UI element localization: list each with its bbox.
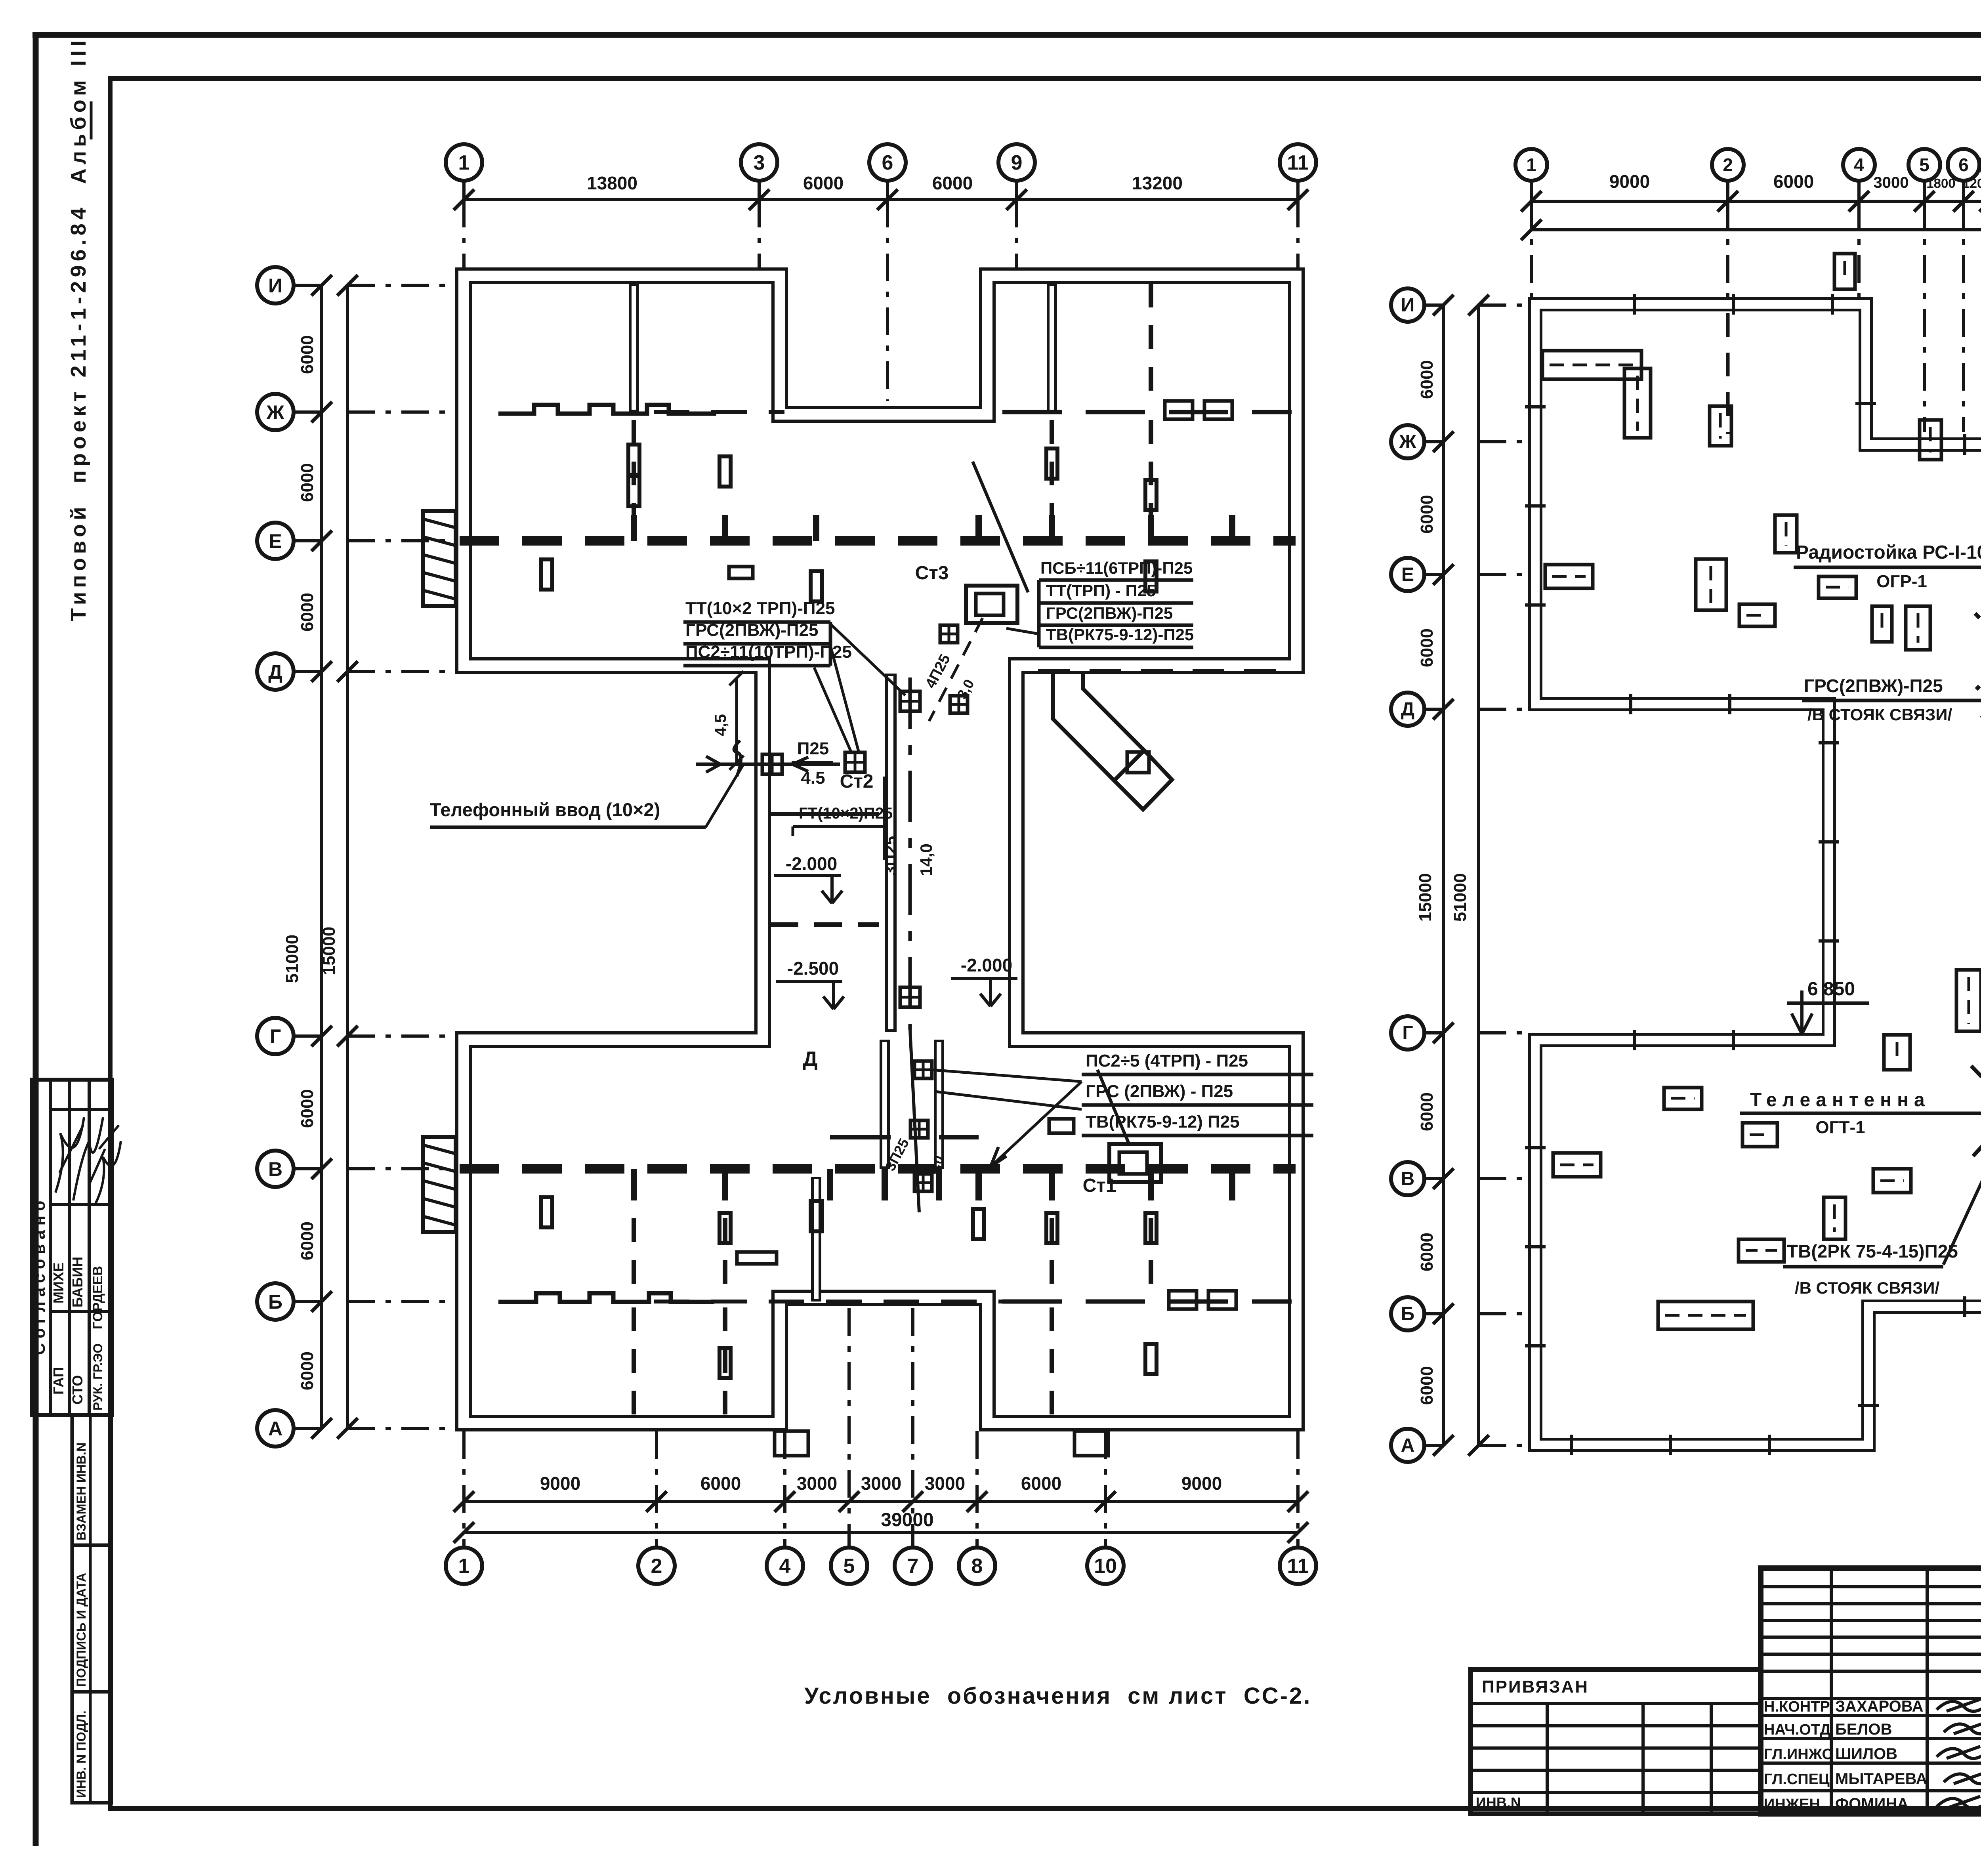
svg-text:/В СТОЯК СВЯЗИ/: /В СТОЯК СВЯЗИ/: [1807, 705, 1952, 724]
left plan row axis circle В: [257, 1151, 294, 1187]
title block signature rows grid: [1761, 1714, 1981, 1717]
left plan column marks upper block: [628, 445, 639, 475]
left plan bottom axis circle 10: [1087, 1548, 1124, 1584]
diagonal feeders near Ст3: [929, 618, 983, 721]
riser square near row Г: [914, 1061, 932, 1078]
svg-text:ПСБ÷11(6ТРП)-П25: ПСБ÷11(6ТРП)-П25: [1040, 559, 1193, 577]
svg-text:13800: 13800: [587, 173, 637, 193]
svg-text:ТТ(ТРП) - П25: ТТ(ТРП) - П25: [1046, 581, 1156, 600]
svg-text:ИНЖЕН.: ИНЖЕН.: [1764, 1796, 1824, 1813]
svg-text:3000: 3000: [861, 1473, 901, 1494]
vent box row В middle: [1873, 1169, 1911, 1193]
svg-text:6000: 6000: [932, 173, 973, 193]
right plan row axis circle Е: [1391, 558, 1424, 591]
svg-text:ЗАХАРОВА: ЗАХАРОВА: [1835, 1698, 1924, 1715]
vent shaft below row Е: [1906, 606, 1930, 650]
left plan bottom axis circle 4: [767, 1548, 803, 1584]
svg-text:11: 11: [1287, 151, 1309, 174]
svg-text:Радиостойка РС-I-1000: Радиостойка РС-I-1000: [1796, 542, 1981, 563]
vent shaft row Г middle: [1884, 1035, 1910, 1070]
riser squares along corridor chain: [900, 691, 920, 711]
svg-text:Телефонный ввод (10×2): Телефонный ввод (10×2): [430, 799, 660, 820]
vent box below row Е left: [1739, 604, 1775, 626]
right stack leader line to Ст3 box: [1006, 628, 1039, 634]
svg-text:Телеантенна: Телеантенна: [1750, 1090, 1930, 1111]
arrow head on lower leader: [990, 1147, 998, 1167]
left plan small square room mark: [729, 567, 753, 578]
svg-text:6000: 6000: [298, 593, 317, 632]
svg-text:9000: 9000: [540, 1473, 580, 1494]
svg-text:ПС2÷5 (4ТРП) - П25: ПС2÷5 (4ТРП) - П25: [1086, 1051, 1248, 1071]
vent shaft corridor: [1956, 970, 1981, 1031]
left plan entry porches on south wall: [775, 1431, 808, 1456]
right plan top dimension line: [1531, 200, 1981, 203]
vent shaft row Ж left: [1542, 351, 1641, 379]
right plan top axis circle 6: [1948, 149, 1979, 181]
riser chain vertical in corridor: [908, 677, 912, 1030]
left plan row Е dashed main line: [460, 536, 1296, 546]
radio mast guy wires X: [1975, 613, 1981, 652]
vent shaft row Е axis 2: [1775, 515, 1797, 553]
svg-text:ТВ(РК75-9-12) П25: ТВ(РК75-9-12) П25: [1086, 1112, 1240, 1132]
svg-text:39000: 39000: [881, 1510, 933, 1531]
margin box Подпись и дата: [72, 1545, 111, 1692]
svg-text:А: А: [1401, 1435, 1415, 1456]
svg-text:Ст2: Ст2: [840, 771, 874, 792]
svg-text:13200: 13200: [1132, 173, 1183, 193]
svg-text:6000: 6000: [1417, 495, 1437, 534]
svg-text:6000: 6000: [1021, 1473, 1061, 1494]
vent shaft below row В: [1824, 1197, 1845, 1239]
right plan top axis circle 1: [1515, 149, 1547, 181]
svg-text:3: 3: [754, 151, 765, 174]
svg-text:ОГТ-1: ОГТ-1: [1815, 1118, 1865, 1137]
svg-text:6000: 6000: [700, 1473, 741, 1494]
right plan row axis circle И: [1391, 288, 1424, 322]
svg-text:РУК. ГР.ЭО: РУК. ГР.ЭО: [91, 1344, 105, 1410]
dashed line row Д right wing: [1038, 669, 1292, 674]
left plan stair porch at row В: [423, 1137, 456, 1232]
svg-text:9000: 9000: [1609, 171, 1650, 192]
svg-text:ВЗАМЕН ИНВ.N: ВЗАМЕН ИНВ.N: [74, 1443, 88, 1540]
svg-text:Г: Г: [270, 1025, 281, 1048]
svg-text:СТО: СТО: [69, 1375, 86, 1405]
vent shaft below row Ж: [1624, 368, 1651, 438]
vent shaft row Б left: [1658, 1302, 1753, 1329]
left plan corridor partition wall: [885, 674, 897, 1032]
left plan interior vertical dashes lower block: [632, 1177, 636, 1300]
svg-text:6000: 6000: [1417, 360, 1437, 399]
svg-text:11: 11: [1287, 1555, 1309, 1578]
right plan top axis circle 4: [1843, 149, 1875, 181]
svg-text:1: 1: [458, 1555, 470, 1578]
right plan row axis circle Д: [1391, 693, 1424, 726]
left plan row Е wall stubs: [631, 515, 637, 541]
svg-text:П25: П25: [797, 739, 829, 758]
left plan top axis circle 1: [446, 144, 482, 181]
svg-text:14,0: 14,0: [917, 844, 935, 876]
vent shaft axis 5 upper: [1920, 420, 1941, 460]
svg-text:6000: 6000: [298, 1221, 317, 1260]
svg-text:4.5: 4.5: [801, 768, 825, 788]
underline of III in margin inscription: [90, 101, 93, 139]
svg-text:Е: Е: [269, 530, 282, 552]
svg-text:ГОРДЕЕВ: ГОРДЕЕВ: [90, 1266, 105, 1329]
svg-text:-2.500: -2.500: [787, 958, 839, 979]
svg-text:15000: 15000: [319, 927, 339, 975]
right plan row axis circle Б: [1391, 1297, 1424, 1330]
svg-text:6000: 6000: [1417, 628, 1437, 667]
svg-text:10: 10: [1094, 1555, 1117, 1578]
right plan row axis circle В: [1391, 1162, 1424, 1195]
left plan top dimension line: [464, 198, 1298, 201]
margin box Инв.N подл.: [72, 1692, 111, 1803]
riser Ст2 box symbol: [845, 752, 865, 772]
privyazan box: [1471, 1670, 1761, 1814]
svg-text:51000: 51000: [1450, 873, 1470, 922]
lower stack leaders: [931, 1070, 1082, 1082]
svg-text:Ж: Ж: [1399, 431, 1416, 452]
svg-text:ФОМИНА: ФОМИНА: [1835, 1795, 1908, 1813]
svg-text:6: 6: [1958, 155, 1969, 175]
title block attestation grid: [1761, 1585, 1981, 1588]
left plan thin dashed partitions row Ж and Б: [654, 410, 784, 414]
svg-text:ГРС(2ПВЖ)-П25: ГРС(2ПВЖ)-П25: [685, 620, 818, 640]
left plan row dimension chain: [320, 285, 323, 1428]
svg-text:Ж: Ж: [266, 401, 284, 424]
telephone label leader: [706, 765, 743, 827]
svg-text:ГРС(2ПВЖ)-П25: ГРС(2ПВЖ)-П25: [1804, 676, 1943, 696]
left plan battlement partition row Ж left wing: [498, 405, 716, 414]
telephone service entry line: [696, 763, 840, 766]
left plan battlement partition row Б left wing: [498, 1293, 714, 1302]
left plan bottom dimension line: [464, 1500, 1298, 1503]
left plan top axis circle 9: [998, 144, 1035, 181]
telephone entry cable box symbol: [762, 754, 782, 774]
right plan row axis circle А: [1391, 1429, 1424, 1462]
svg-text:51000: 51000: [282, 935, 302, 983]
svg-text:ИНВ. N ПОДЛ.: ИНВ. N ПОДЛ.: [74, 1710, 88, 1798]
left plan interior dash upper right wing: [1149, 284, 1153, 408]
left plan row axis circle Ж: [257, 394, 294, 430]
left plan vertical dashed partitions lower block extra: [723, 1177, 727, 1300]
svg-text:5: 5: [844, 1555, 855, 1578]
left plan row axis circle Д: [257, 653, 294, 690]
label ТВ(2РК 75-4-15)П25 with box symbol: [1739, 1239, 1784, 1262]
right plan row axis circle Ж: [1391, 425, 1424, 458]
svg-text:15000: 15000: [1416, 873, 1435, 922]
vent shaft axis 2 row Е: [1696, 559, 1726, 610]
svg-text:6000: 6000: [1417, 1366, 1437, 1405]
svg-text:3000: 3000: [797, 1473, 837, 1494]
left plan interior wall on axis 2 (upper block): [629, 284, 639, 412]
vent shaft axis 2: [1710, 406, 1731, 446]
left plan corridor transverse partition (dashed): [771, 922, 879, 927]
svg-text:ТВ(РК75-9-12)-П25: ТВ(РК75-9-12)-П25: [1046, 625, 1194, 644]
riser square above Ст3: [940, 625, 958, 643]
left plan row axis circle Г: [257, 1018, 294, 1054]
svg-text:ОГР-1: ОГР-1: [1876, 572, 1927, 591]
svg-text:ТТ(10×2 ТРП)-П25: ТТ(10×2 ТРП)-П25: [685, 599, 835, 618]
right plan row dimension chain: [1442, 305, 1445, 1445]
svg-text:И: И: [268, 275, 282, 297]
svg-text:6000: 6000: [1417, 1092, 1437, 1131]
svg-text:1: 1: [458, 151, 470, 174]
svg-text:ГАП: ГАП: [50, 1367, 67, 1395]
right plan interior dash axis 2: [1726, 313, 1730, 434]
svg-text:Б: Б: [268, 1291, 282, 1313]
left plan stair porch at row Е: [423, 511, 456, 606]
vent box row Е middle: [1819, 576, 1856, 598]
svg-text:ИНВ.N: ИНВ.N: [1476, 1794, 1521, 1811]
vent box row В axis 2: [1742, 1123, 1777, 1147]
right plan top axis circle 5: [1908, 149, 1940, 181]
svg-text:6000: 6000: [1773, 171, 1814, 192]
upper stack leaders to risers: [830, 624, 905, 695]
svg-text:8: 8: [971, 1555, 983, 1578]
right plan roof outer walls: [1535, 304, 1981, 1445]
left plan interior wall on axis 10 (upper block): [1047, 284, 1057, 412]
svg-text:МИХЕ: МИХЕ: [50, 1262, 67, 1303]
svg-text:ПРИВЯЗАН: ПРИВЯЗАН: [1482, 1677, 1589, 1697]
svg-text:6000: 6000: [298, 463, 317, 502]
svg-text:Д: Д: [803, 1048, 817, 1071]
svg-text:В: В: [1401, 1168, 1415, 1189]
svg-text:В: В: [268, 1158, 282, 1180]
outer sheet border: [33, 33, 39, 1846]
svg-text:И: И: [1401, 295, 1415, 316]
entry sleeve lower right of upper block: [1053, 674, 1144, 781]
svg-text:Г: Г: [1402, 1023, 1413, 1044]
stamp signatures: [55, 1117, 121, 1204]
left plan bottom axis circle 8: [959, 1548, 995, 1584]
svg-text:ПОДПИСЬ И ДАТА: ПОДПИСЬ И ДАТА: [74, 1573, 88, 1687]
svg-text:ГРС(2ПВЖ)-П25: ГРС(2ПВЖ)-П25: [1046, 604, 1173, 622]
left plan top axis circle 11: [1280, 144, 1316, 181]
svg-text:3000: 3000: [925, 1473, 965, 1494]
svg-text:Е: Е: [1401, 564, 1414, 585]
svg-text:6000: 6000: [803, 173, 844, 193]
svg-text:9: 9: [1011, 151, 1023, 174]
svg-text:БАБИН: БАБИН: [69, 1257, 86, 1307]
svg-text:ГЛ.ИНЖО: ГЛ.ИНЖО: [1764, 1746, 1834, 1763]
left plan top axis circle 3: [741, 144, 777, 181]
right plan top total line 39000: [1531, 228, 1981, 231]
svg-text:2: 2: [1723, 155, 1733, 175]
svg-text:3000: 3000: [1874, 174, 1909, 191]
right plan top axis circle 2: [1712, 149, 1744, 181]
svg-text:2: 2: [651, 1555, 662, 1578]
svg-text:6000: 6000: [1417, 1233, 1437, 1271]
svg-text:БЕЛОВ: БЕЛОВ: [1835, 1721, 1892, 1738]
left plan bottom axis circle 5: [831, 1548, 867, 1584]
svg-text:1: 1: [1526, 155, 1536, 175]
left plan row axis circle И: [257, 267, 294, 303]
svg-text:Д: Д: [268, 661, 282, 683]
svg-text:/В СТОЯК СВЯЗИ/: /В СТОЯК СВЯЗИ/: [1795, 1279, 1939, 1297]
approval stamp box (Согласовано): [32, 1080, 112, 1415]
left plan top axis circle 6: [869, 144, 906, 181]
left plan row В dashed main line: [460, 1164, 1296, 1174]
svg-text:Ст3: Ст3: [915, 563, 949, 584]
title block outer box: [1761, 1568, 1981, 1814]
left plan partition row Б right wing with boxes: [1002, 1300, 1292, 1304]
left plan vertical dashed partition upper block extra: [1149, 420, 1153, 539]
svg-text:ПС2÷11(10ТРП)-П25: ПС2÷11(10ТРП)-П25: [685, 642, 852, 662]
margin box Взамен инв.N: [72, 1415, 111, 1545]
vent shaft center row Е: [1872, 606, 1892, 642]
left plan bottom axis circle 11: [1280, 1548, 1316, 1584]
left plan column marks lower block: [719, 1213, 731, 1243]
svg-text:С о г л а с о в а н о: С о г л а с о в а н о: [30, 1201, 48, 1355]
telephone entry arrows: [706, 756, 720, 764]
svg-text:МЫТАРЕВА: МЫТАРЕВА: [1835, 1770, 1927, 1788]
vent box row Е left: [1545, 565, 1593, 588]
left plan bottom total line 39000: [464, 1531, 1298, 1534]
left plan row axis circle Б: [257, 1283, 294, 1320]
right plan parapet joint ticks: [1525, 294, 1981, 1455]
left plan row axis circle Е: [257, 523, 294, 559]
svg-text:Условные обозначения см лист: Условные обозначения см лист СС-2.: [804, 1683, 1311, 1709]
left plan row В wall stubs: [631, 1169, 637, 1200]
svg-text:Типовой проект 211-1-296.84: Типовой проект 211-1-296.84 Альбом III: [67, 36, 90, 621]
svg-text:Д: Д: [1401, 699, 1414, 720]
svg-text:4: 4: [1854, 155, 1864, 175]
left plan row axis circle А: [257, 1410, 294, 1447]
diagonal cable to TV label: [1943, 1111, 1981, 1265]
left plan bottom axis circle 1: [446, 1548, 482, 1584]
svg-text:ТВ(2РК 75-4-15)П25: ТВ(2РК 75-4-15)П25: [1787, 1241, 1958, 1261]
left plan T-stub on row В axis 5-7: [830, 1135, 891, 1139]
vent box row Г left: [1664, 1088, 1702, 1109]
svg-text:ГТ(10×2)П25: ГТ(10×2)П25: [799, 805, 893, 822]
svg-text:Б: Б: [1401, 1303, 1415, 1324]
left plan building outer walls: [464, 276, 1296, 1423]
left plan bottom axis circle 2: [638, 1548, 675, 1584]
right plan row axis circle Г: [1391, 1016, 1424, 1050]
svg-text:ШИЛОВ: ШИЛОВ: [1835, 1745, 1897, 1763]
svg-text:7: 7: [907, 1555, 919, 1578]
left plan partition row Ж right wing with boxes: [1002, 410, 1292, 414]
svg-text:6000: 6000: [298, 1351, 317, 1390]
riser squares lower corridor: [910, 1120, 928, 1138]
vent box row В left: [1553, 1153, 1601, 1177]
tele antenna guy wires X: [1970, 1065, 1981, 1111]
svg-text:НАЧ.ОТД: НАЧ.ОТД: [1764, 1721, 1830, 1738]
svg-text:6000: 6000: [298, 335, 317, 374]
svg-text:6000: 6000: [298, 1089, 317, 1128]
svg-text:9000: 9000: [1181, 1473, 1222, 1494]
svg-text:4: 4: [779, 1555, 791, 1578]
title block signatures squiggles: [1937, 1696, 1981, 1808]
svg-text:6 850: 6 850: [1807, 979, 1855, 1000]
left plan interior wall axis 5 lower block: [811, 1177, 821, 1302]
svg-text:ГЛ.СПЕЦ: ГЛ.СПЕЦ: [1764, 1771, 1830, 1788]
svg-text:Н.КОНТР: Н.КОНТР: [1764, 1699, 1830, 1715]
svg-text:А: А: [268, 1418, 282, 1440]
vent shaft top notch left: [1834, 254, 1855, 289]
svg-text:-2.000: -2.000: [786, 853, 837, 874]
left plan bottom axis circle 7: [895, 1548, 931, 1584]
svg-text:4,5: 4,5: [712, 714, 729, 736]
svg-text:-2.000: -2.000: [961, 955, 1012, 975]
svg-text:5: 5: [1919, 155, 1929, 175]
svg-text:6: 6: [882, 151, 893, 174]
